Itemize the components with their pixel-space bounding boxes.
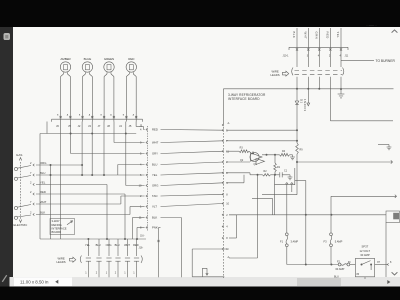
svg-text:LEADS: LEADS <box>57 260 66 264</box>
svg-text:VLT: VLT <box>152 205 157 209</box>
svg-text:BLU: BLU <box>96 243 101 247</box>
svg-text:INTERFACE BOARD: INTERFACE BOARD <box>228 97 260 101</box>
svg-text:LEADS: LEADS <box>271 73 280 77</box>
svg-text:SP3T: SP3T <box>362 245 369 249</box>
svg-text:BLK: BLK <box>152 216 157 220</box>
svg-text:J7: J7 <box>98 124 101 128</box>
svg-text:BLU: BLU <box>115 243 120 247</box>
svg-text:J6: J6 <box>56 124 59 128</box>
svg-text:GRY: GRY <box>152 152 158 156</box>
svg-text:ORG: ORG <box>152 184 158 188</box>
svg-text:ELECTRIC: ELECTRIC <box>14 223 28 227</box>
svg-text:J3: J3 <box>88 124 91 128</box>
svg-text:ORG: ORG <box>40 161 46 165</box>
svg-text:ORG: ORG <box>106 243 112 247</box>
svg-text:YEL: YEL <box>336 32 340 39</box>
svg-text:BOARD: BOARD <box>52 230 62 234</box>
svg-text:J2: J2 <box>78 124 81 128</box>
svg-text:TO BURNER: TO BURNER <box>376 59 396 63</box>
svg-text:11.00 x 8.50 in: 11.00 x 8.50 in <box>20 279 49 284</box>
svg-text:RED: RED <box>152 128 158 132</box>
svg-text:BLU: BLU <box>40 171 45 175</box>
svg-text:BLK: BLK <box>40 211 45 215</box>
svg-text:REFRIG: REFRIG <box>52 223 62 227</box>
svg-text:GREEN: GREEN <box>104 57 114 61</box>
svg-text:RED: RED <box>133 243 139 247</box>
svg-text:GRN: GRN <box>314 32 318 40</box>
svg-text:A-: A- <box>228 256 231 259</box>
svg-text:30 AMP: 30 AMP <box>360 253 370 257</box>
svg-text:J4: J4 <box>119 124 122 128</box>
svg-text:3-WAY REFRIGERATOR: 3-WAY REFRIGERATOR <box>228 93 266 97</box>
svg-text:3-WAY: 3-WAY <box>52 219 60 223</box>
svg-text:YEL: YEL <box>40 181 46 185</box>
svg-text:BLU: BLU <box>334 276 339 279</box>
svg-text:INTERFACE: INTERFACE <box>52 226 67 230</box>
svg-text:J16-: J16- <box>140 236 145 238</box>
svg-text:J16-: J16- <box>139 247 144 250</box>
svg-text:WHT: WHT <box>303 32 307 40</box>
svg-text:J10-1: J10-1 <box>283 54 290 57</box>
svg-text:GAS: GAS <box>16 153 22 157</box>
svg-text:WHT: WHT <box>124 243 130 247</box>
svg-text:PNK: PNK <box>152 226 158 230</box>
svg-text:WHT: WHT <box>40 200 47 204</box>
svg-text:YEL: YEL <box>85 243 90 247</box>
svg-text:5 AMP: 5 AMP <box>335 239 343 243</box>
svg-text:J8: J8 <box>107 124 110 128</box>
svg-text:WHT: WHT <box>152 141 159 145</box>
svg-text:TAN: TAN <box>152 194 157 198</box>
svg-text:1N4003: 1N4003 <box>303 99 307 112</box>
svg-text:RED: RED <box>40 190 46 194</box>
svg-text:YEL: YEL <box>152 173 158 177</box>
svg-text:BLK: BLK <box>292 32 296 39</box>
svg-text:J5: J5 <box>129 124 132 128</box>
svg-text:A-: A- <box>228 122 231 125</box>
svg-text:RED: RED <box>326 32 330 39</box>
svg-text:30 AMP: 30 AMP <box>335 267 344 271</box>
svg-text:AMBER: AMBER <box>60 57 71 61</box>
svg-text:·· —— ··: ·· —— ·· <box>366 24 377 28</box>
svg-text:12 VOLT: 12 VOLT <box>360 249 371 253</box>
svg-text:RED: RED <box>128 57 135 61</box>
svg-text:BLU: BLU <box>152 163 157 167</box>
svg-text:3 AMP: 3 AMP <box>291 239 299 243</box>
svg-text:BLUE: BLUE <box>84 57 92 61</box>
